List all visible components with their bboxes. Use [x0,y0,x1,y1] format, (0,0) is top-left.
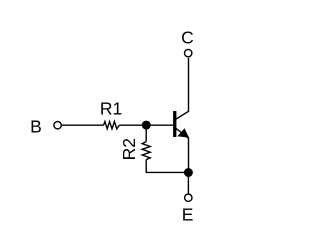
node junction emitter dot [184,168,193,177]
transistor Q1 emitter lead [176,128,189,168]
transistor Q1 emitter arrow [177,128,189,138]
terminal B [54,122,61,129]
svg-text:E: E [182,205,194,225]
svg-text:B: B [30,116,42,136]
wire dot to terminal E [187,173,189,194]
transistor Q1 collector lead [176,58,189,120]
node junction base dot [142,121,151,130]
terminal C [185,49,192,56]
terminal E [185,194,192,201]
resistor R1 [104,122,120,129]
wire R2 to emitter junction [146,160,188,173]
wire R1 to base [119,124,173,126]
wire dot to R2 [145,125,147,142]
svg-text:R2: R2 [119,138,139,160]
svg-text:C: C [181,28,194,48]
wire B to R1 [62,124,104,126]
svg-text:R1: R1 [100,99,122,119]
transistor Q1 base bar [173,111,176,137]
resistor R2 [142,142,150,160]
